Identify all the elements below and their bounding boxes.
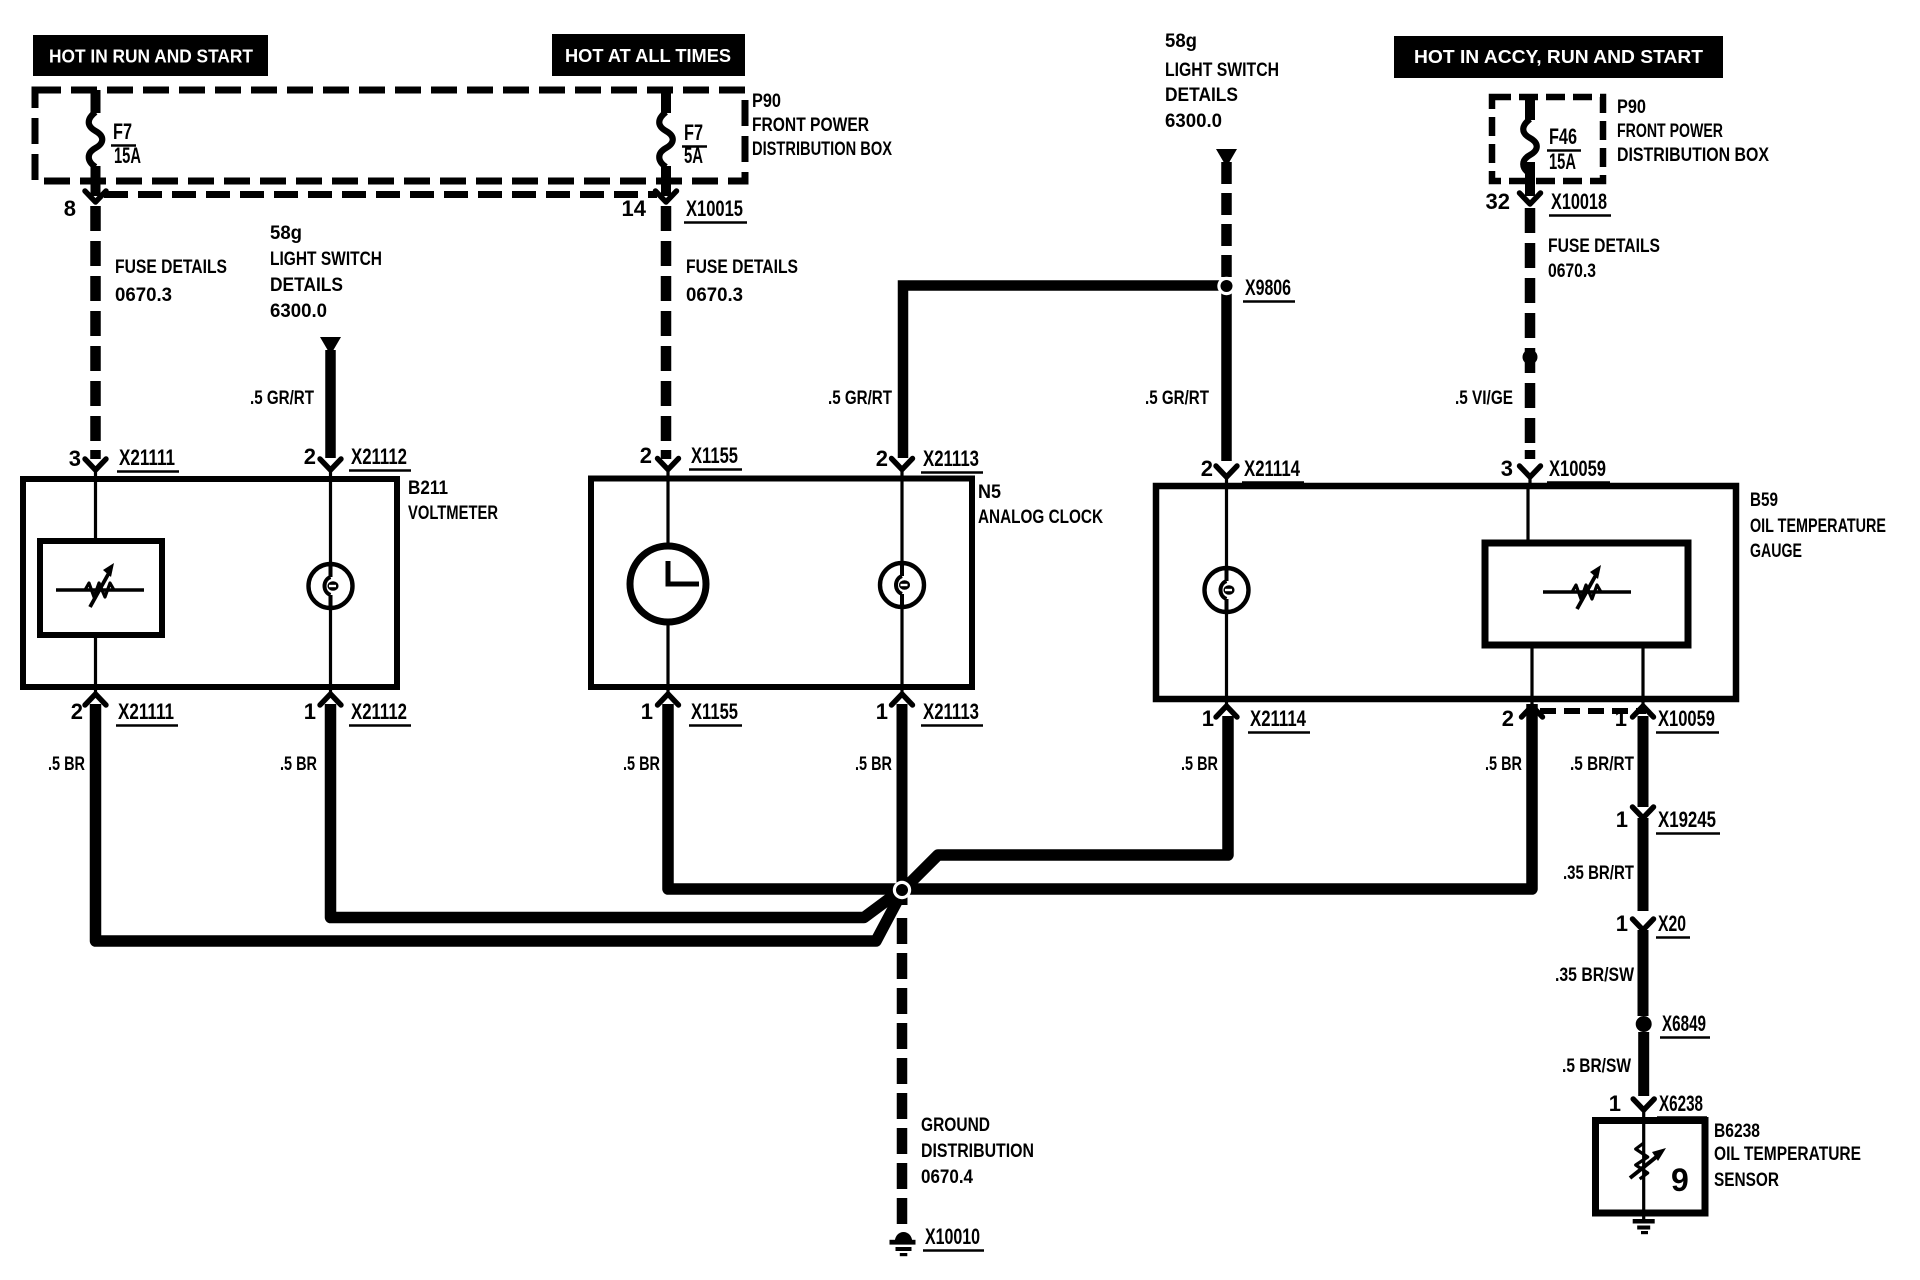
svg-text:.35 BR/RT: .35 BR/RT bbox=[1563, 863, 1634, 884]
svg-text:HOT AT ALL TIMES: HOT AT ALL TIMES bbox=[565, 45, 731, 66]
svg-text:X21111: X21111 bbox=[119, 445, 175, 470]
svg-text:X10059: X10059 bbox=[1658, 706, 1715, 731]
svg-text:X21114: X21114 bbox=[1244, 456, 1301, 481]
svg-text:14: 14 bbox=[622, 196, 647, 221]
svg-text:LIGHT SWITCH: LIGHT SWITCH bbox=[1165, 60, 1279, 81]
svg-text:X21112: X21112 bbox=[351, 444, 407, 469]
svg-text:X1155: X1155 bbox=[691, 699, 738, 724]
svg-text:X21113: X21113 bbox=[923, 699, 979, 724]
svg-text:2: 2 bbox=[1201, 456, 1213, 481]
svg-text:X19245: X19245 bbox=[1658, 807, 1716, 832]
svg-text:B211: B211 bbox=[408, 478, 448, 499]
svg-text:.5 BR: .5 BR bbox=[623, 754, 660, 775]
svg-text:1: 1 bbox=[1615, 706, 1627, 731]
svg-text:X1155: X1155 bbox=[691, 443, 738, 468]
svg-text:X9806: X9806 bbox=[1245, 275, 1291, 300]
svg-text:0670.3: 0670.3 bbox=[115, 285, 172, 306]
svg-text:.5 GR/RT: .5 GR/RT bbox=[250, 388, 314, 409]
svg-text:VOLTMETER: VOLTMETER bbox=[408, 503, 498, 524]
svg-text:B6238: B6238 bbox=[1714, 1121, 1760, 1142]
svg-text:15A: 15A bbox=[114, 143, 141, 168]
svg-text:6300.0: 6300.0 bbox=[270, 301, 327, 322]
svg-text:DISTRIBUTION BOX: DISTRIBUTION BOX bbox=[1617, 145, 1769, 166]
svg-text:ANALOG CLOCK: ANALOG CLOCK bbox=[978, 507, 1103, 528]
svg-text:15A: 15A bbox=[1549, 149, 1576, 174]
svg-text:2: 2 bbox=[1502, 706, 1514, 731]
svg-text:DETAILS: DETAILS bbox=[1165, 85, 1238, 106]
svg-text:3: 3 bbox=[69, 446, 81, 471]
svg-text:HOT IN ACCY, RUN AND START: HOT IN ACCY, RUN AND START bbox=[1414, 46, 1704, 67]
svg-text:X6238: X6238 bbox=[1659, 1091, 1703, 1116]
svg-text:X21113: X21113 bbox=[923, 446, 979, 471]
svg-text:DISTRIBUTION BOX: DISTRIBUTION BOX bbox=[752, 139, 892, 160]
svg-text:X21112: X21112 bbox=[351, 699, 407, 724]
svg-text:2: 2 bbox=[71, 699, 83, 724]
svg-text:FUSE DETAILS: FUSE DETAILS bbox=[1548, 236, 1660, 257]
svg-text:FUSE DETAILS: FUSE DETAILS bbox=[686, 257, 798, 278]
svg-text:DISTRIBUTION: DISTRIBUTION bbox=[921, 1141, 1034, 1162]
svg-text:.35 BR/SW: .35 BR/SW bbox=[1555, 965, 1634, 986]
svg-text:F7: F7 bbox=[684, 120, 703, 145]
svg-text:OIL TEMPERATURE: OIL TEMPERATURE bbox=[1714, 1144, 1861, 1165]
svg-text:X6849: X6849 bbox=[1662, 1011, 1706, 1036]
svg-text:X21111: X21111 bbox=[118, 699, 174, 724]
svg-text:SENSOR: SENSOR bbox=[1714, 1170, 1779, 1191]
svg-text:9: 9 bbox=[1671, 1162, 1689, 1198]
svg-text:B59: B59 bbox=[1750, 490, 1778, 511]
svg-text:0670.3: 0670.3 bbox=[686, 285, 743, 306]
svg-text:FRONT POWER: FRONT POWER bbox=[752, 115, 869, 136]
svg-text:1: 1 bbox=[304, 699, 316, 724]
svg-text:LIGHT SWITCH: LIGHT SWITCH bbox=[270, 249, 382, 270]
svg-text:6300.0: 6300.0 bbox=[1165, 111, 1222, 132]
svg-text:2: 2 bbox=[876, 446, 888, 471]
svg-text:.5 BR/SW: .5 BR/SW bbox=[1562, 1056, 1631, 1077]
svg-text:X21114: X21114 bbox=[1250, 706, 1307, 731]
svg-text:OIL TEMPERATURE: OIL TEMPERATURE bbox=[1750, 516, 1886, 537]
svg-text:X20: X20 bbox=[1658, 911, 1686, 936]
svg-text:.5 GR/RT: .5 GR/RT bbox=[828, 388, 892, 409]
svg-text:HOT IN RUN AND START: HOT IN RUN AND START bbox=[49, 46, 254, 67]
svg-text:0670.3: 0670.3 bbox=[1548, 261, 1596, 282]
svg-text:F46: F46 bbox=[1549, 124, 1577, 149]
svg-text:.5 BR: .5 BR bbox=[1485, 754, 1522, 775]
svg-text:GROUND: GROUND bbox=[921, 1115, 990, 1136]
svg-text:32: 32 bbox=[1486, 189, 1510, 214]
svg-text:1: 1 bbox=[1202, 706, 1214, 731]
svg-text:2: 2 bbox=[304, 444, 316, 469]
svg-text:X10010: X10010 bbox=[925, 1224, 980, 1249]
svg-text:1: 1 bbox=[876, 699, 888, 724]
svg-text:1: 1 bbox=[1616, 807, 1628, 832]
svg-text:1: 1 bbox=[1616, 911, 1628, 936]
svg-text:.5 BR: .5 BR bbox=[1181, 754, 1218, 775]
svg-text:X10059: X10059 bbox=[1549, 456, 1606, 481]
svg-text:.5 BR: .5 BR bbox=[280, 754, 317, 775]
svg-text:1: 1 bbox=[641, 699, 653, 724]
svg-text:FRONT POWER: FRONT POWER bbox=[1617, 121, 1723, 142]
svg-text:0670.4: 0670.4 bbox=[921, 1167, 973, 1188]
svg-text:58g: 58g bbox=[270, 223, 302, 244]
svg-text:3: 3 bbox=[1501, 456, 1513, 481]
svg-text:2: 2 bbox=[640, 443, 652, 468]
svg-text:X10015: X10015 bbox=[686, 196, 743, 221]
svg-text:5A: 5A bbox=[684, 143, 703, 168]
svg-text:.5 GR/RT: .5 GR/RT bbox=[1145, 388, 1209, 409]
svg-text:.5 BR/RT: .5 BR/RT bbox=[1570, 754, 1634, 775]
svg-text:P90: P90 bbox=[1617, 97, 1646, 118]
svg-text:.5 BR: .5 BR bbox=[855, 754, 892, 775]
svg-text:P90: P90 bbox=[752, 91, 781, 112]
svg-text:8: 8 bbox=[64, 196, 76, 221]
svg-text:.5 VI/GE: .5 VI/GE bbox=[1455, 388, 1513, 409]
svg-text:X10018: X10018 bbox=[1551, 189, 1607, 214]
svg-text:GAUGE: GAUGE bbox=[1750, 541, 1802, 562]
svg-text:1: 1 bbox=[1609, 1091, 1621, 1116]
svg-text:58g: 58g bbox=[1165, 31, 1197, 52]
svg-text:.5 BR: .5 BR bbox=[48, 754, 85, 775]
svg-text:DETAILS: DETAILS bbox=[270, 275, 343, 296]
svg-text:N5: N5 bbox=[978, 482, 1001, 503]
svg-text:FUSE DETAILS: FUSE DETAILS bbox=[115, 257, 227, 278]
svg-text:F7: F7 bbox=[113, 119, 132, 144]
